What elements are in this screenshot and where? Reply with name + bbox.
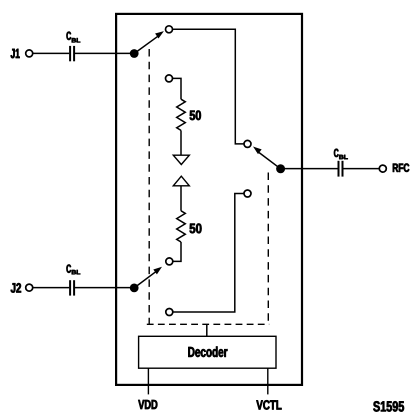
wire termination throw to resistor (top) (173, 78, 181, 99)
switch S1 arrowhead (155, 31, 164, 38)
node RFC pole (solid dot) (276, 164, 285, 173)
wire capacitor to pole node J1 (75, 52, 134, 54)
wire capacitor to RFC terminal (343, 168, 379, 170)
resistor 50 (top termination) (177, 99, 186, 130)
decoder block (139, 336, 276, 368)
port label J2 (11, 283, 21, 293)
pin label VDD (138, 400, 157, 409)
label C_BL (J2) (66, 265, 80, 275)
ground triangle (top termination) (173, 155, 189, 164)
wire capacitor to pole node J2 (75, 287, 134, 289)
die boundary dashed bottom edge (147, 323, 269, 325)
die boundary dashed left edge (148, 49, 150, 324)
node J2 pole (solid dot) (130, 284, 139, 293)
pin label VCTL (256, 400, 281, 409)
RFC switch throw contact (J1 path) (244, 140, 251, 147)
label C_BL (RFC) (334, 149, 348, 159)
terminal J2 (26, 284, 33, 291)
figure number S1595 (373, 401, 404, 411)
VCTL lead (267, 368, 269, 394)
wire die boundary to decoder (206, 324, 208, 336)
switch S1 throw contact (through path) (166, 26, 173, 33)
resistor 50 (bottom termination) (177, 211, 186, 242)
wire resistor to S2 termination throw (173, 242, 181, 261)
IC package outline (116, 14, 302, 385)
terminal RFC (379, 165, 386, 172)
wire RFC pole to capacitor (281, 168, 338, 170)
RFC switch arm (257, 151, 281, 169)
VDD lead (147, 368, 149, 394)
switch S2 throw contact (termination) (166, 258, 173, 265)
wire resistor to ground (top) (180, 130, 182, 155)
RFC switch arrowhead (253, 147, 262, 155)
label C_BL (J1) (66, 32, 80, 43)
node J1 pole (solid dot) (130, 49, 139, 58)
terminal J1 (26, 50, 33, 57)
wire ground to resistor (bottom) (180, 186, 182, 211)
value label 50 (bottom) (190, 224, 202, 234)
switch S1 arm (134, 36, 158, 53)
decoder label (188, 346, 227, 357)
switch S2 throw contact (through path) (166, 309, 173, 316)
wire S1 through-throw to RFC switch top throw (173, 29, 244, 144)
ground triangle (bottom termination) (173, 176, 189, 186)
switch S1 throw contact (termination) (166, 75, 173, 82)
wire J1 terminal to capacitor (33, 52, 69, 54)
port label J1 (11, 49, 20, 58)
switch S2 arrowhead (153, 267, 162, 275)
wire S2 through-throw to RFC switch bottom throw (173, 194, 244, 313)
capacitor C_BL (J1) (70, 46, 74, 61)
die boundary dashed right edge (267, 173, 269, 323)
wire J2 terminal to capacitor (33, 287, 69, 289)
capacitor C_BL (RFC) (339, 161, 343, 177)
capacitor C_BL (J2) (70, 280, 74, 295)
value label 50 (top) (190, 110, 201, 120)
switch S2 arm (134, 271, 156, 288)
RFC switch throw contact (J2 path) (244, 190, 251, 197)
port label RFC (393, 164, 409, 172)
